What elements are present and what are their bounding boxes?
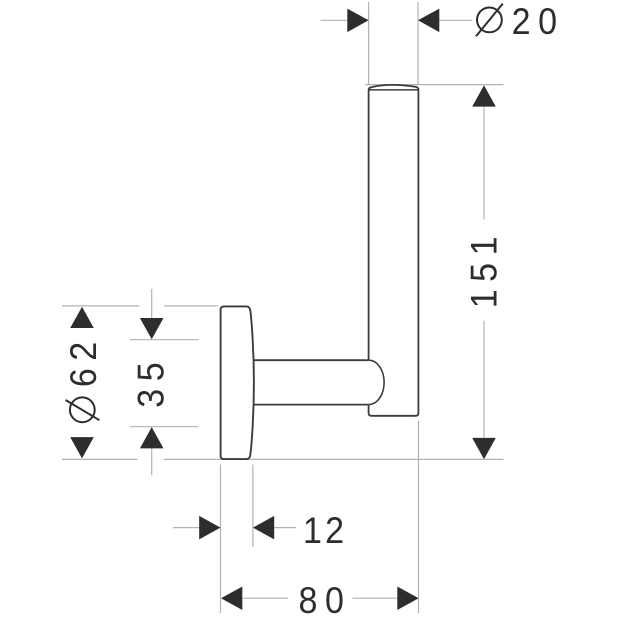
arrowhead d62 top bbox=[70, 307, 94, 328]
extension line: plate top (d62) left part bbox=[62, 305, 139, 307]
tube cap inner line bbox=[369, 89, 417, 91]
arrowhead d62 bottom bbox=[70, 437, 94, 458]
arm top line bbox=[253, 359, 369, 361]
arrowhead 151 bottom bbox=[472, 438, 496, 459]
dimension extension line: tube right (d20) bbox=[417, 2, 419, 85]
extension line: tube right down (80) bbox=[418, 421, 420, 614]
label 62 (rotated) bbox=[63, 334, 105, 387]
dimension extension line: tube left (d20) bbox=[368, 2, 370, 85]
dimension line 12 left segment bbox=[173, 527, 200, 529]
tube body outline bbox=[369, 85, 419, 416]
arrowhead 80 left bbox=[221, 587, 242, 611]
label 151 (rotated) bbox=[463, 229, 505, 308]
arm bottom line bbox=[253, 404, 369, 406]
svg-text:151: 151 bbox=[463, 229, 505, 308]
extension line: 35 bottom bbox=[130, 426, 198, 428]
svg-text:12: 12 bbox=[303, 510, 347, 552]
arrowhead d20 left bbox=[347, 9, 368, 32]
svg-text:80: 80 bbox=[299, 580, 352, 619]
arrowhead 35 bottom bbox=[140, 427, 164, 448]
wall plate outline bbox=[221, 306, 254, 459]
extension line: plate left edge down (12/80) bbox=[220, 465, 222, 614]
svg-text:35: 35 bbox=[130, 355, 172, 408]
diameter symbol for 62 bbox=[66, 397, 100, 422]
extension line: 35 top bbox=[130, 339, 198, 341]
arrowhead 151 top bbox=[472, 85, 496, 106]
arrowhead 35 top bbox=[140, 318, 164, 339]
extension line: plate bottom long, right part bbox=[164, 458, 504, 460]
dimension line 151 lower segment bbox=[483, 321, 485, 438]
arrowhead 12 left bbox=[199, 516, 220, 540]
extension line: plate front (12 right) bbox=[252, 465, 254, 548]
dimension line 35 below bbox=[151, 449, 153, 476]
extension line: tube top (151) bbox=[365, 84, 503, 86]
dimension line 12 right segment bbox=[274, 527, 296, 529]
svg-text:20: 20 bbox=[512, 1, 565, 43]
svg-text:62: 62 bbox=[63, 334, 105, 387]
dimension line 80 right segment bbox=[353, 597, 399, 599]
arrowhead 12 right bbox=[253, 516, 274, 540]
extension line: plate bottom long, left part bbox=[62, 458, 137, 460]
dimension line 80 left segment bbox=[243, 597, 289, 599]
dimension line 35 above bbox=[151, 289, 153, 318]
label 35 (rotated) bbox=[130, 355, 172, 408]
diameter symbol for 20 bbox=[476, 4, 503, 37]
arrowhead d20 right bbox=[418, 9, 439, 32]
extension line: plate top (d62) right part bbox=[164, 305, 218, 307]
dimension line 151 upper segment bbox=[483, 107, 485, 220]
arm-to-tube bend arc bbox=[369, 360, 384, 404]
dimension line d20 right segment bbox=[439, 19, 473, 21]
dimension line d20 left segment bbox=[321, 19, 349, 21]
arrowhead 80 right bbox=[397, 587, 418, 611]
